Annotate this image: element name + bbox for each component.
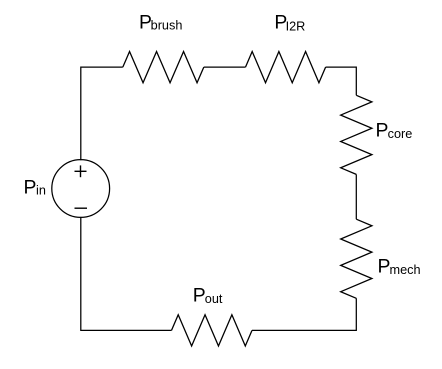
wire bottom-right corner to P_out xyxy=(252,298,356,330)
svg-text:core: core xyxy=(388,127,413,141)
svg-text:brush: brush xyxy=(151,19,183,33)
resistor P_mech xyxy=(341,219,372,298)
label P_in xyxy=(24,176,46,198)
svg-text:out: out xyxy=(205,292,223,306)
wire between P_brush and P_I2R xyxy=(204,66,246,68)
plus terminal xyxy=(75,165,87,177)
svg-text:in: in xyxy=(36,184,46,198)
label P_out xyxy=(193,285,223,307)
wire bottom-left from P_out to source xyxy=(81,217,172,331)
label P_mech xyxy=(377,255,420,277)
resistor P_out xyxy=(172,315,253,346)
wire top-right corner to P_core xyxy=(326,67,357,95)
svg-text:I2R: I2R xyxy=(286,19,306,33)
svg-text:P: P xyxy=(24,176,37,198)
resistor P_I2R xyxy=(246,52,326,83)
svg-text:P: P xyxy=(193,285,206,307)
resistor P_core xyxy=(341,95,372,174)
svg-text:mech: mech xyxy=(390,263,421,277)
label P_brush xyxy=(139,12,182,34)
wire between P_core and P_mech xyxy=(355,174,357,219)
svg-text:P: P xyxy=(376,120,389,142)
minus terminal xyxy=(75,207,88,209)
wire top from source to P_brush xyxy=(81,67,123,160)
resistor P_brush xyxy=(123,52,204,83)
svg-text:P: P xyxy=(377,255,390,277)
label P_I2R xyxy=(274,12,305,34)
label P_core xyxy=(376,120,413,142)
voltage source P_in circle xyxy=(52,160,110,218)
